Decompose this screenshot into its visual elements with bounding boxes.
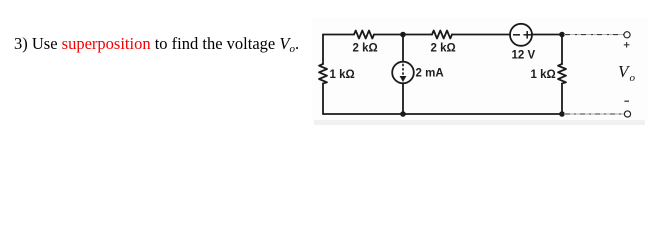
wire middle branch lower (402, 83, 404, 114)
scan background tint (312, 18, 648, 122)
wire dashed to top terminal (564, 34, 624, 36)
current source I1 arrow (402, 64, 404, 77)
current source I1 circle (392, 62, 414, 84)
wire top-left horizontal (323, 34, 354, 36)
source V1 plus sign (524, 31, 532, 39)
wire R2 to source V1 (452, 34, 510, 36)
resistor R2 2k zigzag (432, 31, 452, 39)
resistor R3 1k zigzag vertical left (319, 64, 327, 84)
wire middle branch upper (402, 35, 404, 62)
wire right branch lower (561, 84, 563, 115)
svg-text:o: o (630, 72, 636, 84)
question text (14, 34, 299, 54)
svg-text:2 mA: 2 mA (416, 68, 444, 80)
label minus terminal (624, 100, 629, 102)
node A dot (400, 32, 406, 38)
svg-text:2 kΩ: 2 kΩ (431, 43, 456, 55)
terminal bottom open circle (624, 111, 630, 117)
svg-text:12 V: 12 V (512, 50, 536, 62)
wire node A to R2 (403, 34, 432, 36)
node C dot (400, 111, 406, 117)
wire left branch lower (322, 84, 324, 115)
label Vo (618, 62, 636, 84)
terminal top open circle (624, 32, 630, 38)
wire left branch upper (322, 35, 324, 65)
svg-text:2 kΩ: 2 kΩ (353, 43, 378, 55)
label plus terminal (624, 42, 630, 48)
resistor R1 2k zigzag (354, 31, 374, 39)
node B dot (559, 32, 565, 38)
svg-text:1 kΩ: 1 kΩ (531, 69, 556, 81)
svg-text:1 kΩ: 1 kΩ (330, 69, 355, 81)
source V1 minus sign (513, 34, 520, 36)
voltage source V1 circle (510, 24, 532, 46)
node D dot (559, 111, 565, 117)
wire V1 to node B (532, 34, 562, 36)
scan shadow band (314, 120, 645, 125)
wire bottom (323, 113, 562, 115)
wire right branch upper (561, 35, 563, 65)
resistor R4 1k zigzag vertical right (558, 64, 566, 84)
wire dashed to bottom terminal (564, 113, 624, 115)
wire node A to R1 (374, 34, 403, 36)
